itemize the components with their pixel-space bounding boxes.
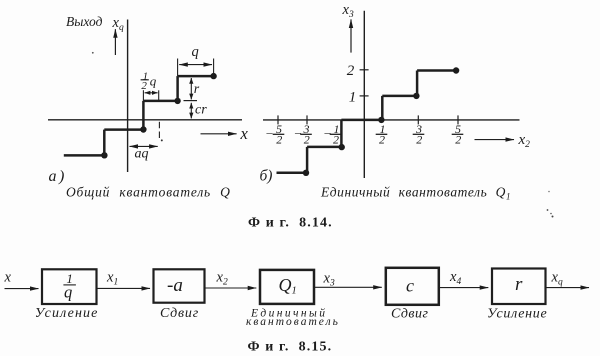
tick label 1/2: [379, 122, 386, 147]
speckle group right margin: [547, 209, 549, 211]
svg-text:–: –: [294, 125, 302, 139]
riser 1: [103, 130, 106, 157]
svg-text:r: r: [194, 82, 200, 97]
node: dot step 3: [174, 98, 180, 104]
node: dot top step: [210, 73, 216, 79]
x-axis: [48, 119, 242, 121]
svg-text:Сдвиг: Сдвиг: [391, 306, 428, 321]
svg-text:-a: -a: [167, 275, 183, 296]
svg-text:Усиление: Усиление: [35, 306, 99, 321]
tick label 5/2: [455, 122, 461, 147]
tick label 3/2: [415, 122, 422, 147]
block U4: offset c: [386, 268, 439, 305]
fraction bar 3/2: [413, 133, 425, 135]
y-axis: [363, 11, 365, 178]
svg-text:Общий квантователь Q: Общий квантователь Q: [66, 185, 231, 200]
y tick 1: [360, 95, 369, 97]
x-axis: [263, 119, 520, 121]
svg-text:x2: x2: [518, 132, 531, 150]
block U3: unit quantizer Q1: [260, 270, 314, 304]
speckle: [161, 139, 163, 141]
value 1/q bar: [63, 284, 76, 286]
svg-text:Ф и г. 8.15.: Ф и г. 8.15.: [248, 340, 333, 355]
svg-text:x1: x1: [106, 270, 118, 288]
svg-text:x3: x3: [342, 2, 354, 20]
riser 1 to 2: [416, 71, 419, 96]
fraction bar of 1/2 q: [141, 79, 149, 81]
svg-text:q: q: [64, 283, 72, 302]
svg-text:б): б): [260, 168, 273, 185]
riser 3: [176, 76, 179, 102]
tick 5/2: [457, 115, 459, 124]
riser 2 thin extension (tick for 1/2 q): [142, 90, 144, 101]
svg-text:2: 2: [141, 80, 147, 92]
riser 3 thin extension (tick for q): [177, 59, 179, 77]
fraction bar -5/2: [273, 133, 285, 135]
x2 axis arrow: [475, 139, 515, 141]
svg-text:квантователь: квантователь: [246, 316, 340, 328]
speckle: [548, 191, 550, 193]
guide line lower segment: [158, 122, 160, 141]
dimension arrow r: [190, 78, 192, 99]
y-axis direction arrow: [350, 19, 352, 52]
svg-text:Выход: Выход: [66, 14, 103, 29]
svg-text:x: x: [240, 124, 249, 143]
tick 3/2: [417, 115, 419, 124]
x axis arrow: [201, 133, 237, 135]
svg-text:c: c: [406, 276, 414, 296]
tick -3/2: [306, 115, 308, 124]
block U2: offset -a: [154, 269, 205, 302]
svg-text:а): а): [49, 168, 67, 185]
dimension arrow cr: [190, 103, 192, 119]
guide line upper segment: [158, 90, 160, 102]
svg-text:x2: x2: [216, 270, 228, 288]
riser 2: [142, 101, 145, 131]
wire box1 to box2: [97, 287, 150, 289]
svg-text:x: x: [4, 270, 12, 286]
speckle: [552, 216, 554, 218]
fraction bar 1/2: [376, 133, 388, 135]
y-axis direction arrow: [114, 29, 116, 55]
riser 0 to 1: [381, 96, 384, 120]
step level -1: [307, 146, 342, 149]
svg-text:2: 2: [347, 63, 355, 79]
node: dot level -1: [339, 144, 345, 150]
fraction bar -3/2: [300, 133, 312, 135]
node: dot step 2: [140, 126, 146, 132]
dimension arrow 1/2 q: [145, 92, 158, 94]
riser -1 to 0: [340, 120, 343, 147]
step 2 (below axis): [104, 128, 143, 131]
wire box2 to box3: [205, 287, 257, 289]
fraction bar 5/2: [452, 133, 464, 135]
node: dot level 2: [453, 67, 459, 73]
step level 2: [417, 69, 457, 72]
svg-text:Q1: Q1: [279, 275, 297, 297]
fraction bar -1/2: [330, 133, 342, 135]
dimension arrow q: [179, 64, 212, 66]
svg-text:x4: x4: [449, 269, 461, 287]
output wire: [546, 287, 589, 289]
svg-text:q: q: [150, 74, 157, 89]
speckle: [550, 213, 552, 215]
tick label -5/2: [266, 122, 283, 147]
node: dot level 1: [413, 93, 419, 99]
y-axis: [127, 20, 129, 173]
wire box4 to box5: [439, 287, 489, 289]
node: dot bottom step: [101, 152, 107, 158]
tick label -1/2: [324, 122, 340, 147]
svg-text:r: r: [515, 274, 523, 295]
node: dot level -2: [303, 170, 309, 176]
svg-text:Единичный квантователь Q1: Единичный квантователь Q1: [320, 185, 511, 202]
label 1/2 q (fraction): [143, 70, 157, 88]
dimension arrow aq: [130, 145, 158, 147]
svg-text:Усиление: Усиление: [487, 306, 547, 321]
block U5: gain r: [492, 269, 546, 305]
step level 0 (on axis): [341, 119, 381, 122]
svg-text:xq: xq: [112, 15, 124, 33]
speckle: [92, 52, 94, 54]
svg-text:–: –: [266, 125, 274, 139]
step 3 (above axis): [143, 100, 177, 103]
svg-text:–: –: [324, 125, 332, 139]
tick label -3/2: [294, 122, 310, 147]
svg-text:x3: x3: [323, 270, 335, 288]
svg-text:1: 1: [349, 90, 357, 106]
staircase: bottom step: [64, 154, 105, 157]
svg-text:xq: xq: [551, 270, 563, 288]
top step: [178, 75, 214, 78]
axis label "Выход x_q": [66, 14, 124, 33]
svg-text:aq: aq: [135, 147, 149, 162]
y tick 2: [360, 69, 369, 71]
step level 1: [382, 95, 417, 98]
svg-text:Сдвиг: Сдвиг: [160, 306, 199, 321]
wire box3 to box4: [314, 286, 382, 288]
node: dot level 0: [378, 117, 384, 123]
tick -5/2: [277, 115, 279, 124]
riser -2 to -1: [306, 147, 309, 173]
block U1: gain 1/q: [42, 269, 97, 304]
svg-text:cr: cr: [195, 103, 207, 118]
svg-text:Ф и г. 8.14.: Ф и г. 8.14.: [248, 216, 333, 231]
step level -2: [277, 171, 308, 174]
tick at top-step right end: [213, 59, 215, 77]
reference tick at middle step level: [184, 100, 198, 102]
svg-text:q: q: [192, 44, 199, 60]
input wire: [5, 288, 39, 290]
